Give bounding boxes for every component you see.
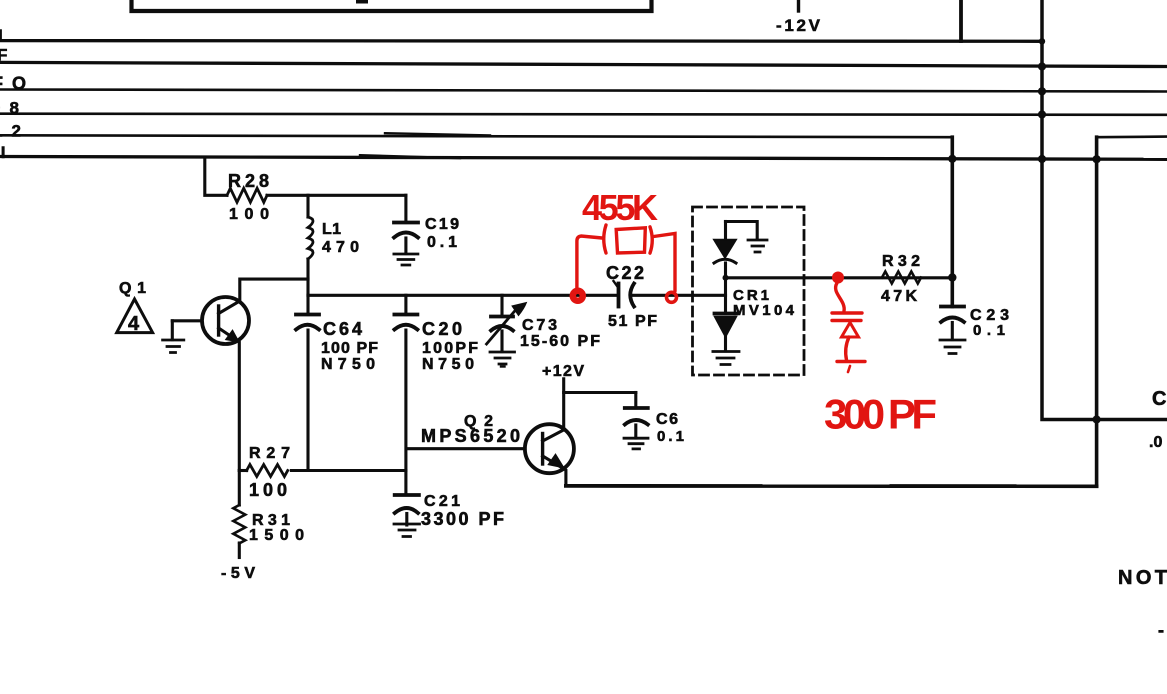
svg-text:47K: 47K [881, 288, 917, 305]
svg-text:R27: R27 [249, 445, 290, 462]
svg-text:I: I [0, 26, 3, 45]
svg-text:12: 12 [0, 122, 21, 141]
svg-text:100: 100 [249, 480, 287, 500]
svg-text:MV104: MV104 [733, 302, 795, 319]
svg-text:300 PF: 300 PF [824, 391, 937, 438]
svg-text:R32: R32 [882, 253, 920, 270]
svg-text:II: II [0, 143, 5, 162]
svg-text:100PF: 100PF [422, 340, 478, 357]
svg-text:NOT: NOT [1118, 567, 1167, 589]
svg-text:4: 4 [128, 313, 140, 335]
svg-text:+12V: +12V [542, 363, 584, 380]
svg-text:455K: 455K [582, 187, 658, 228]
svg-text:Q1: Q1 [119, 280, 146, 297]
svg-text:3300 PF: 3300 PF [421, 509, 504, 529]
svg-text:C20: C20 [422, 319, 462, 339]
svg-text:N750: N750 [321, 356, 375, 373]
svg-text:.0: .0 [1149, 434, 1162, 451]
svg-text:C73: C73 [522, 317, 557, 334]
svg-text:-: - [1158, 620, 1164, 640]
svg-text:0.1: 0.1 [427, 234, 457, 251]
svg-text:C21: C21 [424, 493, 460, 510]
svg-text:C6: C6 [656, 411, 678, 428]
svg-text:470: 470 [322, 239, 359, 256]
svg-text:1500: 1500 [249, 527, 304, 544]
svg-text:0.1: 0.1 [657, 428, 684, 445]
svg-text:C: C [1152, 388, 1166, 410]
svg-text:51 PF: 51 PF [608, 313, 657, 330]
svg-text:R28: R28 [228, 171, 269, 191]
svg-text:L1: L1 [322, 221, 341, 238]
svg-text:C64: C64 [323, 319, 362, 339]
svg-text:15-60 PF: 15-60 PF [520, 333, 600, 350]
svg-text:100 PF: 100 PF [321, 340, 378, 357]
svg-text:-5V: -5V [221, 565, 255, 582]
svg-text:F: F [0, 46, 7, 65]
svg-text:-12V: -12V [776, 16, 821, 35]
svg-text:MPS6520: MPS6520 [421, 426, 520, 446]
svg-text:100: 100 [229, 206, 269, 223]
svg-text:0.1: 0.1 [973, 322, 1005, 339]
svg-text:C22: C22 [606, 263, 644, 283]
svg-text:N750: N750 [422, 356, 474, 373]
svg-text:C19: C19 [425, 216, 459, 233]
